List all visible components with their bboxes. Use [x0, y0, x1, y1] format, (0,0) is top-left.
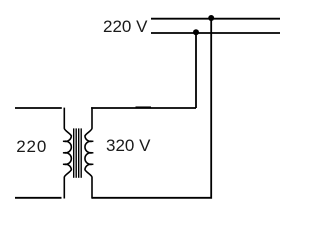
wire: primary bottom terminal lead: [15, 197, 62, 199]
secondary winding loop crossover nub 1: [91, 140, 94, 142]
wire: vertical drop from L1 dot and bottom horizontal to secondary: [92, 19, 211, 198]
wire: second supply rail L2: [151, 32, 280, 34]
wire: primary top terminal lead: [15, 107, 62, 109]
wire: horizontal from L2 drop to secondary top: [91, 107, 196, 109]
primary winding loop crossover nub 1: [63, 140, 66, 142]
node: junction dot on rail L1: [208, 15, 214, 21]
primary winding loop crossover nub 3: [63, 163, 66, 165]
label: 220 V supply text: [103, 17, 147, 37]
secondary winding loop crossover nub 2: [91, 152, 94, 154]
wire: vertical drop from L2 dot: [195, 33, 197, 108]
wire: top supply rail L1: [151, 18, 280, 20]
transformer T1 core (4 vertical bars): [74, 128, 82, 177]
node: junction dot on rail L2: [193, 29, 199, 35]
transformer T1 secondary winding (right coil, 4 loops): [85, 107, 92, 198]
label: 320 V secondary voltage text: [106, 136, 150, 156]
transformer T1 primary winding (left coil, 4 loops): [64, 108, 71, 199]
wire: thicker overlap segment on horizontal wire: [136, 106, 152, 108]
primary winding loop crossover nub 2: [63, 152, 66, 154]
label: 220 primary voltage text: [16, 137, 47, 157]
secondary winding loop crossover nub 3: [91, 163, 94, 165]
